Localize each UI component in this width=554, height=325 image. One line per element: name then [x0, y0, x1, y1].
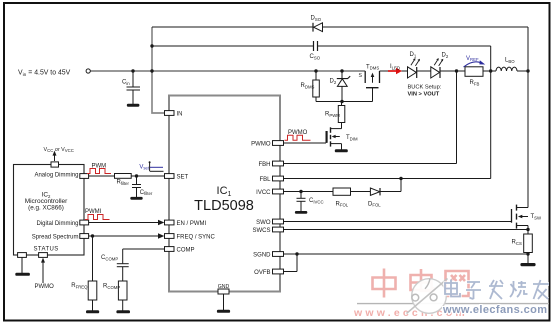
svg-text:SET: SET	[177, 174, 189, 180]
svg-text:CCOMP: CCOMP	[101, 255, 118, 261]
svg-text:BUCK Setup:: BUCK Setup:	[408, 85, 442, 91]
svg-text:Analog Dimming: Analog Dimming	[34, 173, 78, 179]
svg-text:D2: D2	[442, 53, 449, 59]
svg-text:Vset: Vset	[139, 164, 150, 170]
svg-text:EN / PWMI: EN / PWMI	[177, 221, 207, 227]
svg-text:DFOL: DFOL	[368, 201, 381, 207]
svg-text:Digital Dimming: Digital Dimming	[36, 221, 78, 227]
svg-text:www.elecfans.com: www.elecfans.com	[442, 304, 547, 316]
svg-text:SGND: SGND	[253, 252, 271, 258]
svg-text:RFOL: RFOL	[336, 201, 349, 207]
svg-text:RCOMP: RCOMP	[103, 284, 120, 290]
svg-text:IVCC: IVCC	[256, 190, 271, 196]
svg-text:Cfilter: Cfilter	[140, 190, 153, 196]
svg-text:GND: GND	[218, 284, 230, 290]
svg-text:RPWM: RPWM	[325, 112, 340, 118]
svg-text:OVFB: OVFB	[254, 270, 270, 276]
svg-text:CSO: CSO	[310, 54, 321, 60]
svg-text:TSW: TSW	[531, 214, 543, 220]
svg-text:CIVCC: CIVCC	[309, 198, 324, 204]
svg-text:PWMO: PWMO	[288, 130, 308, 136]
svg-text:STATUS: STATUS	[34, 247, 59, 253]
svg-text:PWMO: PWMO	[35, 284, 55, 290]
svg-text:RFREQ: RFREQ	[71, 283, 88, 289]
svg-text:COMP: COMP	[177, 247, 195, 253]
svg-text:FBH: FBH	[259, 162, 271, 168]
svg-text:S: S	[359, 73, 363, 79]
svg-text:FBL: FBL	[259, 177, 271, 183]
svg-text:Rfilter: Rfilter	[117, 180, 130, 186]
svg-text:PWM: PWM	[92, 164, 107, 170]
svg-text:TDIM: TDIM	[346, 135, 358, 141]
svg-text:VCC or VVCC: VCC or VVCC	[44, 147, 74, 153]
svg-text:RFB: RFB	[470, 80, 480, 86]
svg-text:PWMO: PWMO	[251, 141, 271, 147]
svg-text:VREF: VREF	[466, 56, 479, 62]
svg-text:RCS: RCS	[512, 240, 522, 246]
svg-text:D1: D1	[410, 52, 417, 58]
svg-text:Cin: Cin	[122, 80, 130, 86]
svg-text:TLD5098: TLD5098	[194, 198, 254, 214]
svg-text:Spread Spectrum: Spread Spectrum	[32, 234, 79, 240]
svg-text:(e.g. XC866): (e.g. XC866)	[28, 205, 64, 212]
svg-text:DSO: DSO	[311, 16, 322, 22]
svg-text:VIN > VOUT: VIN > VOUT	[408, 92, 440, 98]
svg-text:RDMS: RDMS	[301, 83, 315, 89]
svg-text:ILED: ILED	[390, 64, 400, 70]
svg-text:PWMI: PWMI	[85, 209, 102, 215]
svg-text:IN: IN	[177, 111, 183, 117]
svg-text:TDMS: TDMS	[366, 64, 379, 70]
svg-text:SWCS: SWCS	[253, 228, 271, 234]
svg-text:FREQ / SYNC: FREQ / SYNC	[177, 234, 216, 240]
svg-text:SWO: SWO	[256, 220, 271, 226]
svg-text:LBO: LBO	[505, 58, 515, 64]
svg-text:D2: D2	[330, 79, 337, 85]
